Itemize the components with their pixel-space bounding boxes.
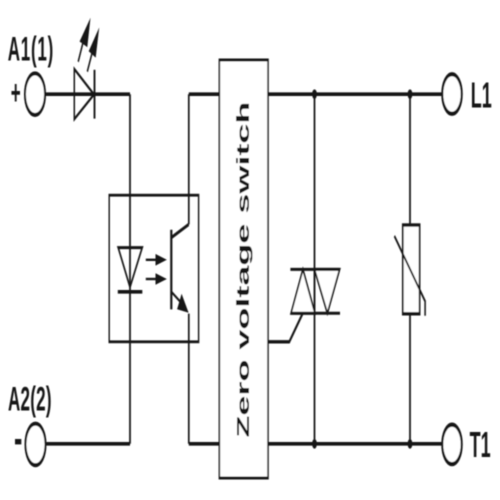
wire A2 terminal to x130 bbox=[46, 443, 130, 445]
svg-text:Zero voltage switch: Zero voltage switch bbox=[233, 102, 253, 438]
triac Q2 left triangle bbox=[291, 269, 315, 313]
triac Q2 bottom bar bbox=[291, 312, 340, 314]
wire bottom bus T1 bbox=[268, 443, 442, 445]
label minus bbox=[15, 439, 21, 444]
wire triac gate bbox=[268, 313, 303, 342]
LED D1 triangle bbox=[74, 69, 94, 119]
phototransistor Q1 collector lead bbox=[171, 224, 189, 237]
wire emitter vertical x188.8 bbox=[188, 314, 190, 444]
optocoupler U1 box bbox=[109, 195, 198, 342]
wire varistor bottom branch bbox=[409, 314, 411, 444]
LED D1 emission arrow 1 bbox=[78, 18, 90, 62]
svg-text:A1(1): A1(1) bbox=[8, 30, 54, 68]
junction node bottom varistor bbox=[408, 439, 413, 449]
terminal L1 bbox=[442, 74, 461, 114]
terminal T1 bbox=[442, 425, 461, 465]
wire collector to zero-voltage-switch box bbox=[189, 93, 220, 95]
phototransistor Q1 base bar bbox=[170, 230, 172, 310]
wire A1 terminal to node at x130 bbox=[46, 93, 130, 95]
varistor RV1 diagonal bbox=[394, 236, 425, 316]
svg-text:L1: L1 bbox=[471, 76, 492, 116]
LED D1 emission arrow 2 bbox=[87, 28, 99, 72]
junction node top varistor bbox=[408, 89, 413, 99]
wire collector vertical x188.8 bbox=[188, 94, 190, 224]
svg-text:T1: T1 bbox=[470, 426, 491, 466]
terminal A1(1) bbox=[25, 73, 45, 115]
junction node top triac bbox=[312, 89, 317, 99]
photodiode of U1 bbox=[118, 248, 142, 288]
wire triac branch vertical bbox=[314, 94, 316, 444]
coupling arrow 2 bbox=[146, 273, 167, 285]
LED D1 cathode bar bbox=[94, 70, 96, 119]
wire top bus L1 bbox=[268, 93, 442, 95]
wire emitter to zero-voltage-switch box bbox=[189, 443, 220, 445]
wire vertical x130 down through optocoupler bbox=[129, 94, 131, 444]
phototransistor Q1 emitter lead bbox=[171, 292, 188, 313]
triac Q2 right triangle bbox=[315, 269, 340, 313]
terminal A2(2) bbox=[26, 424, 46, 466]
svg-text:+: + bbox=[11, 73, 21, 111]
photodiode cathode bar bbox=[118, 291, 143, 293]
svg-text:A2(2): A2(2) bbox=[8, 380, 52, 418]
triac Q2 top bar bbox=[290, 268, 339, 270]
coupling arrow 1 bbox=[146, 254, 167, 266]
junction node bottom triac bbox=[312, 439, 317, 449]
varistor RV1 body bbox=[403, 225, 420, 314]
triac Q2 center line bbox=[314, 269, 316, 313]
zero voltage switch box U2 bbox=[219, 60, 268, 478]
wire varistor top branch bbox=[409, 94, 411, 225]
